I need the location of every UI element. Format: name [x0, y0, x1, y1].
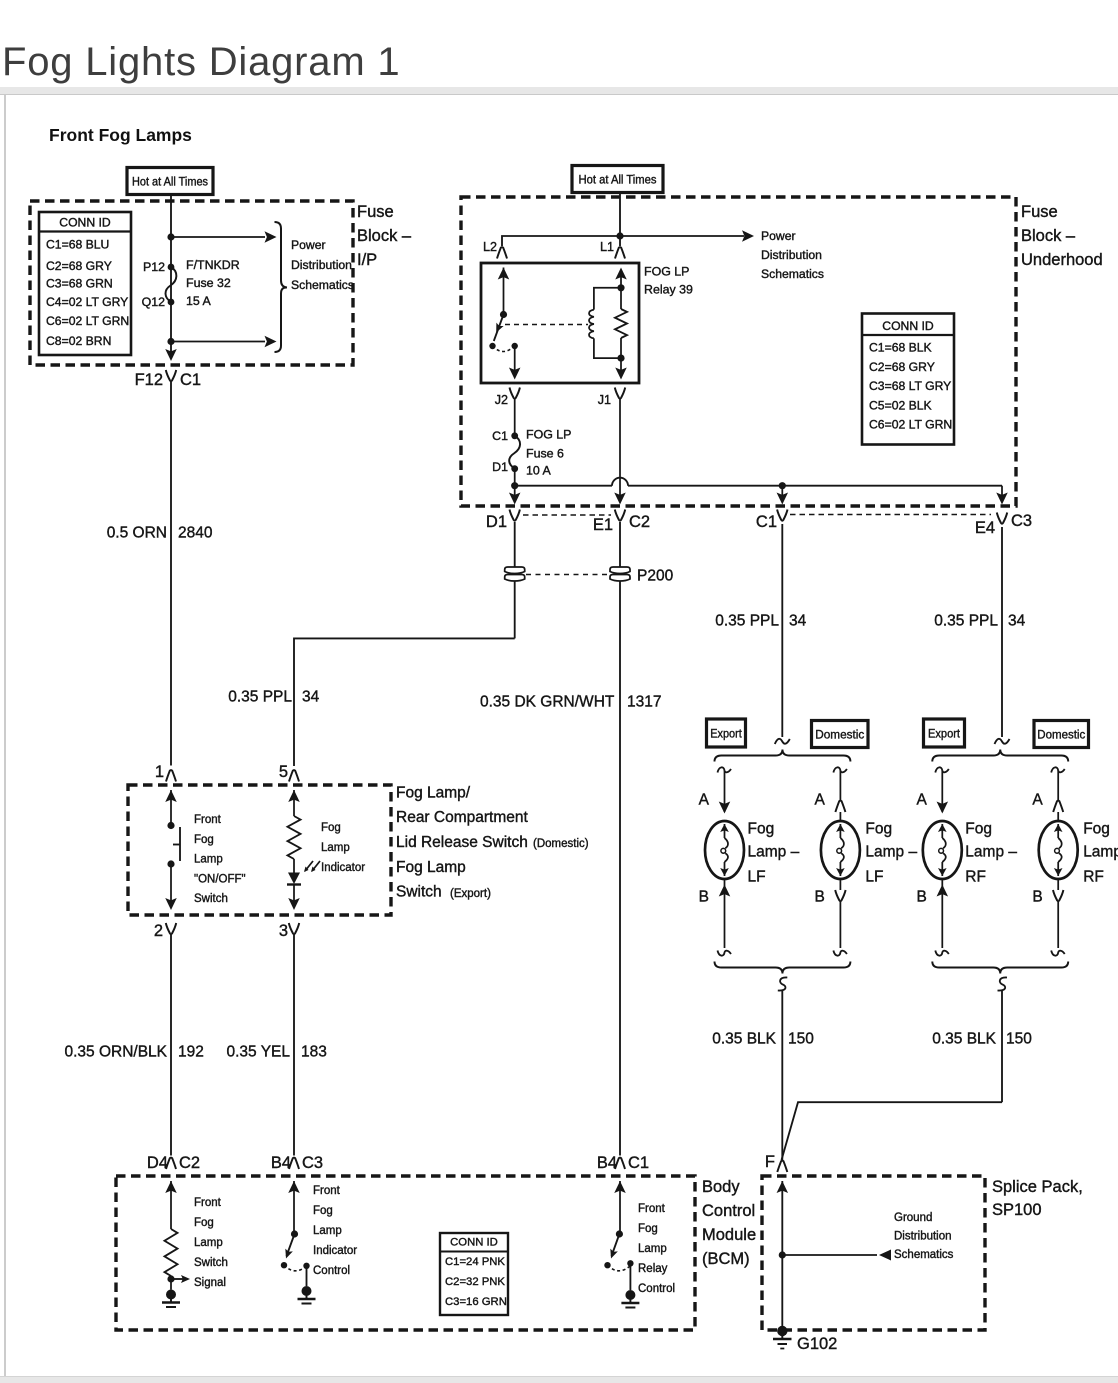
svg-text:Lamp: Lamp	[194, 854, 223, 866]
svg-text:B4: B4	[597, 1154, 617, 1172]
svg-text:34: 34	[789, 613, 807, 630]
svg-text:15 A: 15 A	[186, 294, 212, 308]
svg-text:Fog: Fog	[321, 822, 341, 834]
svg-text:1317: 1317	[627, 694, 661, 711]
svg-text:Block –: Block –	[1021, 227, 1076, 245]
svg-text:C8=02 BRN: C8=02 BRN	[46, 334, 111, 348]
svg-text:F/TNKDR: F/TNKDR	[186, 258, 240, 272]
svg-text:Control: Control	[702, 1202, 755, 1220]
svg-text:Fog Lamp/: Fog Lamp/	[396, 785, 471, 802]
svg-text:P12: P12	[143, 260, 165, 274]
svg-text:A: A	[815, 792, 826, 809]
svg-text:Front: Front	[194, 814, 222, 826]
svg-text:Indicator: Indicator	[313, 1245, 357, 1257]
svg-text:Lamp: Lamp	[194, 1237, 223, 1249]
svg-text:C3: C3	[302, 1154, 323, 1172]
svg-text:C1: C1	[180, 371, 201, 389]
svg-text:"ON/OFF": "ON/OFF"	[194, 873, 246, 885]
svg-text:Switch: Switch	[194, 893, 228, 905]
svg-text:D1: D1	[486, 513, 507, 531]
svg-text:Q12: Q12	[142, 295, 166, 309]
svg-text:E1: E1	[593, 516, 613, 534]
svg-text:Front: Front	[638, 1203, 666, 1215]
svg-text:Control: Control	[313, 1265, 350, 1277]
svg-text:Body: Body	[702, 1178, 740, 1196]
svg-text:192: 192	[178, 1044, 204, 1061]
svg-text:0.35 PPL: 0.35 PPL	[228, 689, 292, 706]
svg-text:150: 150	[1006, 1031, 1032, 1048]
svg-text:Fog: Fog	[638, 1223, 658, 1235]
svg-text:C6=02 LT GRN: C6=02 LT GRN	[869, 418, 952, 432]
svg-text:(BCM): (BCM)	[702, 1250, 750, 1268]
svg-text:C6=02 LT GRN: C6=02 LT GRN	[46, 314, 129, 328]
svg-text:LF: LF	[748, 869, 766, 886]
svg-text:C1: C1	[492, 429, 508, 443]
svg-text:10 A: 10 A	[526, 464, 552, 478]
svg-text:C2: C2	[629, 513, 650, 531]
svg-text:FOG LP: FOG LP	[526, 428, 571, 442]
svg-text:0.35 ORN/BLK: 0.35 ORN/BLK	[64, 1044, 167, 1061]
svg-text:C4=02 LT GRY: C4=02 LT GRY	[46, 295, 128, 309]
svg-text:Splice Pack,: Splice Pack,	[992, 1178, 1083, 1196]
svg-text:SP100: SP100	[992, 1201, 1042, 1219]
svg-text:Export: Export	[928, 727, 961, 741]
svg-text:C1: C1	[756, 513, 777, 531]
svg-text:C2: C2	[179, 1154, 200, 1172]
svg-text:Fog: Fog	[865, 821, 892, 838]
svg-text:Distribution: Distribution	[761, 248, 822, 262]
svg-text:C3: C3	[1011, 512, 1032, 530]
svg-text:Control: Control	[638, 1283, 675, 1295]
svg-text:0.35 BLK: 0.35 BLK	[932, 1031, 996, 1048]
svg-text:I/P: I/P	[357, 251, 377, 269]
svg-text:Domestic: Domestic	[815, 728, 864, 742]
svg-text:Lamp: Lamp	[321, 842, 350, 854]
svg-text:B4: B4	[271, 1154, 291, 1172]
svg-text:G102: G102	[797, 1335, 837, 1353]
svg-text:Indicator: Indicator	[321, 862, 365, 874]
svg-text:Signal: Signal	[194, 1277, 226, 1289]
svg-text:CONN ID: CONN ID	[59, 216, 111, 230]
svg-text:Switch: Switch	[194, 1257, 228, 1269]
svg-text:CONN ID: CONN ID	[882, 319, 934, 333]
svg-text:B: B	[916, 889, 926, 906]
svg-text:Export: Export	[710, 727, 742, 741]
svg-text:Lamp: Lamp	[313, 1225, 342, 1237]
svg-text:D1: D1	[492, 460, 508, 474]
svg-text:0.5 ORN: 0.5 ORN	[107, 525, 167, 542]
svg-text:C1=68 BLU: C1=68 BLU	[46, 238, 109, 252]
svg-text:Block –: Block –	[357, 227, 412, 245]
svg-text:Rear Compartment: Rear Compartment	[396, 809, 528, 826]
svg-text:C3=68 GRN: C3=68 GRN	[46, 277, 113, 291]
svg-text:Distribution: Distribution	[894, 1231, 952, 1243]
svg-text:RF: RF	[965, 869, 986, 886]
svg-text:Distribution: Distribution	[291, 258, 352, 272]
svg-text:2: 2	[154, 922, 163, 940]
svg-text:(Export): (Export)	[450, 888, 491, 900]
svg-text:Lamp: Lamp	[1083, 844, 1118, 861]
svg-text:Fuse 6: Fuse 6	[526, 447, 564, 461]
svg-text:Lamp: Lamp	[638, 1243, 667, 1255]
svg-text:C1=68 BLK: C1=68 BLK	[869, 341, 932, 355]
svg-text:L1: L1	[600, 240, 614, 254]
svg-text:Domestic: Domestic	[1037, 728, 1085, 742]
svg-text:34: 34	[1008, 613, 1026, 630]
svg-text:C2=68 GRY: C2=68 GRY	[869, 360, 935, 374]
svg-text:B: B	[815, 889, 825, 906]
svg-text:A: A	[699, 792, 710, 809]
svg-text:C2=32 PNK: C2=32 PNK	[445, 1276, 505, 1288]
svg-text:Relay 39: Relay 39	[644, 283, 693, 297]
svg-text:0.35 PPL: 0.35 PPL	[715, 613, 779, 630]
svg-text:Fog: Fog	[748, 821, 775, 838]
svg-text:C1=24 PNK: C1=24 PNK	[445, 1256, 505, 1268]
svg-text:F12: F12	[135, 371, 163, 389]
svg-text:Schematics: Schematics	[291, 278, 354, 292]
svg-text:P200: P200	[637, 568, 674, 585]
svg-text:Fog: Fog	[1083, 821, 1110, 838]
svg-text:0.35 YEL: 0.35 YEL	[227, 1044, 291, 1061]
svg-text:F: F	[765, 1153, 775, 1171]
svg-text:Hot at All Times: Hot at All Times	[132, 175, 208, 189]
svg-text:Lid Release Switch: Lid Release Switch	[396, 834, 528, 851]
svg-text:J2: J2	[495, 393, 508, 407]
svg-text:J1: J1	[598, 393, 611, 407]
svg-text:C3=16 GRN: C3=16 GRN	[445, 1296, 507, 1308]
svg-text:Lamp –: Lamp –	[965, 844, 1017, 861]
svg-text:Fog: Fog	[965, 821, 992, 838]
svg-text:E4: E4	[975, 519, 995, 537]
svg-text:Fog: Fog	[194, 1217, 214, 1229]
svg-text:Fog: Fog	[313, 1205, 333, 1217]
svg-text:0.35 BLK: 0.35 BLK	[712, 1031, 776, 1048]
svg-text:Fuse: Fuse	[1021, 203, 1058, 221]
svg-text:C5=02 BLK: C5=02 BLK	[869, 398, 932, 412]
svg-text:34: 34	[302, 689, 320, 706]
svg-text:(Domestic): (Domestic)	[533, 838, 589, 850]
svg-text:Schematics: Schematics	[894, 1249, 954, 1261]
svg-text:CONN ID: CONN ID	[450, 1237, 498, 1249]
svg-text:B: B	[1032, 889, 1042, 906]
svg-text:Power: Power	[291, 238, 326, 252]
svg-text:Hot at All Times: Hot at All Times	[579, 173, 657, 187]
svg-text:Lamp –: Lamp –	[865, 844, 917, 861]
svg-text:Power: Power	[761, 229, 796, 243]
svg-text:5: 5	[279, 763, 288, 781]
svg-text:C2=68 GRY: C2=68 GRY	[46, 259, 112, 273]
svg-text:C3=68 LT GRY: C3=68 LT GRY	[869, 379, 951, 393]
svg-text:FOG LP: FOG LP	[644, 265, 689, 279]
svg-text:B: B	[699, 889, 709, 906]
svg-text:3: 3	[279, 922, 288, 940]
svg-text:A: A	[1032, 792, 1043, 809]
svg-text:Underhood: Underhood	[1021, 251, 1103, 269]
svg-text:Front: Front	[194, 1197, 222, 1209]
svg-text:150: 150	[788, 1031, 814, 1048]
svg-text:L2: L2	[483, 240, 497, 254]
svg-text:Fog Lamp: Fog Lamp	[396, 859, 466, 876]
svg-text:0.35 PPL: 0.35 PPL	[934, 613, 998, 630]
svg-text:RF: RF	[1083, 869, 1104, 886]
svg-text:1: 1	[155, 763, 164, 781]
svg-text:Fuse: Fuse	[357, 203, 394, 221]
svg-text:Lamp –: Lamp –	[748, 844, 800, 861]
svg-text:Ground: Ground	[894, 1212, 932, 1224]
svg-text:Switch: Switch	[396, 884, 442, 901]
svg-text:Module: Module	[702, 1226, 756, 1244]
svg-text:Fog: Fog	[194, 834, 214, 846]
svg-text:C1: C1	[628, 1154, 649, 1172]
svg-text:A: A	[916, 792, 927, 809]
svg-text:Front: Front	[313, 1185, 341, 1197]
svg-text:D4: D4	[147, 1154, 168, 1172]
svg-text:Schematics: Schematics	[761, 267, 824, 281]
svg-text:Relay: Relay	[638, 1263, 668, 1275]
svg-text:Fuse 32: Fuse 32	[186, 276, 231, 290]
svg-text:183: 183	[301, 1044, 327, 1061]
svg-text:0.35 DK GRN/WHT: 0.35 DK GRN/WHT	[480, 694, 615, 711]
svg-text:2840: 2840	[178, 525, 213, 542]
svg-text:LF: LF	[865, 869, 883, 886]
